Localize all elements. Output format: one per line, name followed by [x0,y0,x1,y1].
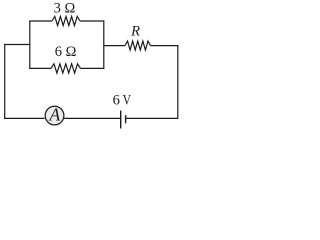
wire: bottom wire battery to right corner [126,117,178,119]
resistor R zigzag [125,41,151,50]
wire: bottom wire segment to ammeter [4,117,45,119]
battery B1 short plate [125,115,127,123]
wire: left connector to box [5,44,30,46]
wire: R branch right segment [151,45,179,47]
svg-text:A: A [48,105,60,125]
resistor R1 3Ω zigzag [52,16,80,25]
battery B1 long plate [120,111,122,129]
ammeter A1 circle [45,106,64,125]
wire: parallel box right edge [103,21,105,68]
wire: right outer wire [177,45,179,119]
svg-text:3 Ω: 3 Ω [54,1,76,17]
resistor R2 6Ω zigzag [51,64,81,73]
wire: box top edge left stub [29,20,52,22]
wire: box bottom edge left stub [29,67,51,69]
svg-text:6: 6 [113,93,120,109]
wire: R branch left segment [103,45,125,47]
svg-text:6 Ω: 6 Ω [55,44,77,60]
wire: box bottom edge right stub [81,67,105,69]
wire: bottom wire ammeter to battery [64,117,121,119]
svg-text:R: R [130,24,140,40]
wire: left outer wire [4,44,6,119]
svg-text:V: V [123,93,132,109]
wire: parallel box left edge [29,21,31,68]
wire: box top edge right stub [80,20,104,22]
